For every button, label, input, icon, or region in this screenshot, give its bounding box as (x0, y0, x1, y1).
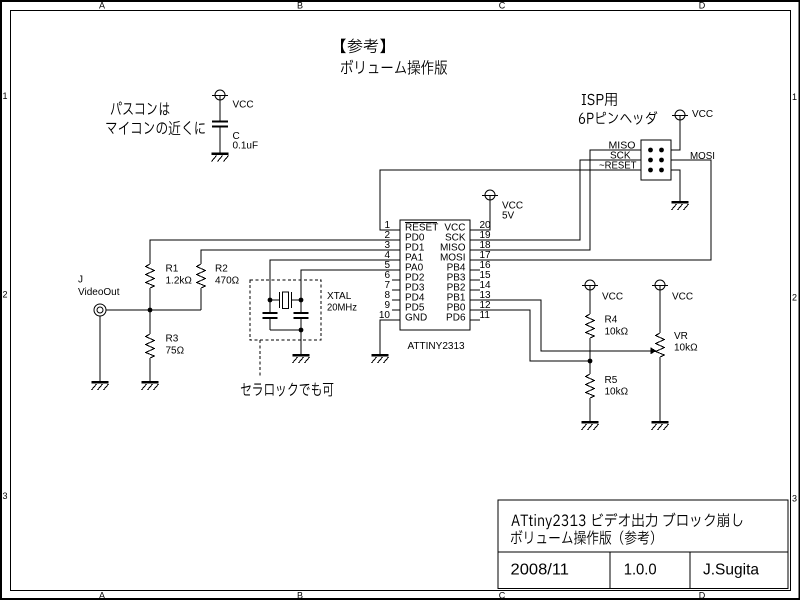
ground (U1) (372, 355, 389, 363)
wire VCC to R4 (589, 290, 591, 314)
ISP pin dot row1 left (648, 148, 653, 153)
svg-text:470Ω: 470Ω (215, 276, 240, 287)
VCC symbol (R4) (582, 280, 598, 290)
wire net ~RESET ISP to U1 pin1 (380, 170, 641, 230)
junction R4/R5 divider (588, 359, 593, 364)
svg-text:2: 2 (2, 290, 7, 300)
ISP pin dot row3 right (659, 168, 664, 173)
wire XTAL left node to C load left (269, 300, 271, 312)
wire U1 pin2 PD0 to R1 (150, 240, 400, 264)
wire C load right to join (300, 319, 302, 330)
wire cap join to ground (300, 330, 302, 354)
svg-text:R1: R1 (166, 264, 179, 275)
VCC symbol (5V at U1) (482, 190, 498, 200)
svg-text:VCC: VCC (672, 292, 693, 303)
wire stub U1 left pin y=310 (392, 309, 400, 311)
wire ISP pin6 to ground (671, 170, 680, 201)
IC U1 ATTINY2313 body (400, 220, 470, 330)
note 6Pピンヘッダ (579, 111, 657, 125)
wire VCC to C (219, 100, 221, 121)
title line1 (511, 513, 742, 530)
svg-text:1.0.0: 1.0.0 (624, 562, 657, 579)
wire stub U1 right pin y=270 (470, 269, 480, 271)
VR wiper arrowhead (651, 347, 657, 354)
ground (R3) (142, 382, 159, 390)
ground (J VideoOut) (92, 382, 109, 390)
wire net SCK ISP to U1 pin19 (470, 160, 641, 240)
note heading line1 【参考】 (341, 38, 385, 53)
title line2 (511, 530, 654, 545)
ground (C bypass) (212, 154, 229, 162)
note セラロックでも可 (241, 383, 333, 397)
svg-text:D: D (699, 1, 706, 11)
junction XTAL left node (268, 298, 273, 303)
potentiometer VR body (656, 333, 665, 357)
dashed box around crystal circuit (250, 280, 321, 340)
wire node VideoOut to R3 (149, 310, 151, 334)
wire U1 pin12 PB0 to divider (470, 310, 590, 361)
svg-text:11: 11 (480, 310, 491, 321)
svg-text:VCC: VCC (602, 292, 623, 303)
svg-text:B: B (297, 591, 303, 600)
svg-text:10kΩ: 10kΩ (674, 343, 698, 354)
resistor R4 (586, 314, 595, 338)
note heading line2 ボリューム操作版 (341, 60, 447, 75)
VCC symbol (ISP) (672, 110, 688, 120)
note ISP用 (582, 93, 617, 106)
wire node VideoOut horizontal (106, 309, 201, 311)
ground (R5) (582, 422, 599, 430)
svg-text:C: C (499, 591, 506, 600)
svg-text:GND: GND (405, 313, 427, 324)
svg-text:PD6: PD6 (446, 313, 466, 324)
ISP pin dot row1 right (659, 148, 664, 153)
svg-text:R3: R3 (166, 334, 179, 345)
wire cap join horizontal (270, 329, 301, 331)
wire net MISO ISP to U1 pin18 (470, 150, 641, 250)
wire R2 to node VideoOut (200, 288, 202, 310)
connector J VideoOut jack (94, 304, 106, 316)
svg-text:VR: VR (674, 331, 688, 342)
junction node VideoOut at R1 (148, 308, 153, 313)
svg-text:B: B (297, 1, 303, 11)
wire VCC to U1 pin20 (470, 200, 490, 230)
svg-text:10kΩ: 10kΩ (605, 327, 629, 338)
capacitor load left (263, 313, 278, 318)
dashed leader to note (259, 340, 261, 378)
junction cap join (299, 328, 304, 333)
svg-text:2: 2 (792, 293, 797, 303)
svg-text:10kΩ: 10kΩ (605, 387, 629, 398)
wire U1 GND pin10 to ground (380, 320, 400, 354)
wire U1 pin4 PA1 to XTAL left (270, 260, 400, 300)
svg-text:1: 1 (2, 91, 7, 101)
svg-text:R4: R4 (605, 315, 618, 326)
VCC symbol (VR) (652, 280, 668, 290)
svg-text:J.Sugita: J.Sugita (703, 562, 759, 579)
svg-text:5V: 5V (502, 211, 515, 222)
svg-text:1.2kΩ: 1.2kΩ (166, 276, 193, 287)
svg-text:XTAL: XTAL (327, 291, 352, 302)
wire U1 pin3 PD1 to R2 (201, 250, 400, 264)
resistor R2 (197, 264, 206, 288)
wire stub U1 right pin y=280 (470, 279, 480, 281)
wire R5 to ground (589, 398, 591, 421)
wire U1 pin13 PB1 to VR wiper (470, 300, 652, 351)
connector J1 ISP 6-pin header (641, 140, 671, 180)
svg-text:VCC: VCC (692, 109, 713, 120)
note パスコンは (111, 102, 170, 116)
svg-text:3: 3 (792, 494, 797, 504)
wire U1 pin5 PA0 to XTAL right (301, 270, 400, 300)
svg-text:75Ω: 75Ω (166, 346, 185, 357)
wire C load left to join (269, 319, 271, 330)
note マイコンの近くに (106, 121, 204, 135)
svg-text:ATTINY2313: ATTINY2313 (408, 341, 465, 352)
wire VCC to ISP pin2 (671, 120, 680, 150)
wire R4 to R5 (589, 338, 591, 374)
svg-text:A: A (99, 591, 105, 600)
U1 RESET overline (405, 222, 437, 224)
ISP pin dot row3 left (648, 168, 653, 173)
wire VR to ground (659, 357, 661, 421)
svg-text:0.1uF: 0.1uF (233, 141, 259, 152)
svg-text:1: 1 (792, 92, 797, 102)
wire VCC to VR (659, 290, 661, 333)
VCC symbol (C bypass) (212, 90, 228, 100)
wire stub U1 right pin y=290 (470, 289, 480, 291)
svg-text:R5: R5 (605, 375, 618, 386)
wire C to ground (219, 128, 221, 153)
svg-text:20MHz: 20MHz (327, 303, 357, 314)
wire R3 to ground (149, 358, 151, 381)
ground (ISP) (672, 202, 689, 210)
svg-text:10: 10 (379, 310, 391, 321)
resistor R5 (586, 374, 595, 398)
ground (VR) (652, 422, 669, 430)
junction XTAL right node (299, 298, 304, 303)
wire stub U1 right pin y=320 (470, 319, 480, 321)
capacitor load right (294, 313, 309, 318)
wire stub U1 left pin y=290 (392, 289, 400, 291)
svg-text:D: D (699, 591, 706, 600)
resistor R3 (146, 334, 155, 358)
svg-text:C: C (499, 1, 506, 11)
ground (XTAL) (293, 355, 310, 363)
capacitor C (212, 122, 228, 127)
wire stub U1 left pin y=300 (392, 299, 400, 301)
wire stub U1 left pin y=280 (392, 279, 400, 281)
svg-text:VideoOut: VideoOut (78, 287, 120, 298)
crystal X1 symbol (270, 292, 301, 309)
ISP pin dot row2 left (648, 158, 653, 163)
title block (498, 500, 788, 589)
wire J sleeve to ground (99, 316, 101, 381)
ISP pin dot row2 right (659, 158, 664, 163)
resistor R1 (146, 264, 155, 288)
svg-text:J: J (78, 275, 83, 286)
wire R1 to node VideoOut (149, 288, 151, 310)
wire XTAL right node to C load right (300, 300, 302, 312)
svg-text:VCC: VCC (233, 100, 254, 111)
svg-text:3: 3 (2, 491, 7, 501)
wire net MOSI ISP to U1 pin17 (470, 160, 711, 260)
svg-text:2008/11: 2008/11 (511, 562, 570, 579)
svg-text:R2: R2 (215, 264, 228, 275)
svg-text:A: A (99, 1, 105, 11)
